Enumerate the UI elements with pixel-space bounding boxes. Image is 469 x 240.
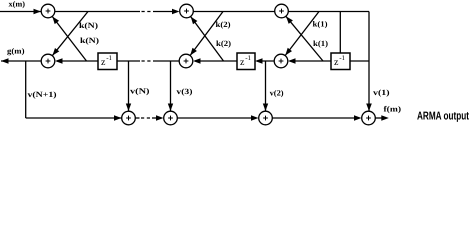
arrowhead g(m) output (left) [1,58,9,64]
svg-text:ARMA output: ARMA output [417,111,469,123]
wire tap v(N) down [128,61,130,111]
svg-text:v(1): v(1) [373,88,390,97]
bottom adder B2b [164,111,178,125]
adder A2 (row2 stage N) [41,54,55,68]
arrowhead into delay D2 from right [255,58,263,64]
bottom adder B3b [259,111,273,125]
wire row2 delay D3 to B3 [290,60,331,62]
arrowhead tap v(3) into B2b [168,104,173,112]
wire row2 vertical to D3 [350,60,369,62]
output adder Fb [362,111,376,125]
wire bottom B2b to B3b [178,117,253,119]
wire top A1 to T2 (with ellipsis gap) [55,11,140,13]
svg-text:-1: -1 [245,54,251,62]
delay z^-1 D3 [331,53,350,70]
wire stage-N cross diagonal down into A2 [52,12,88,56]
svg-text:k(1): k(1) [313,39,328,48]
arrowhead into adder A2 from right [55,58,63,64]
svg-text:v(N): v(N) [130,87,150,96]
svg-text:v(2): v(2) [270,89,284,98]
arrowhead down into output adder Fb [366,104,372,112]
wire row2 delay D1 to A2 with junction [57,60,98,62]
wire tap v(2) down [265,61,267,111]
arrowhead diagonal into T2 [191,17,198,25]
wire row2 ellipsis dashes [142,60,153,62]
wire row2 right of D1 with taps (solid part) [117,60,140,62]
wire bottom ellipsis dashes [141,117,151,119]
wire top T2 to T3 [194,11,275,13]
node junction tap v(N+1) [25,61,27,118]
arrowhead tap v(2) into B3b [263,104,268,112]
arrowhead diagonal into T3 [286,16,293,24]
svg-text:v(3): v(3) [176,87,192,96]
wire vertical right edge down from top line through row2 to bottom adder [368,12,370,112]
svg-text:g(m): g(m) [7,46,25,55]
svg-text:f(m): f(m) [384,104,402,113]
wire bottom from v(N+1) corner to B1b [26,117,122,119]
bottom adder B1b [122,111,136,125]
arrowhead tap v(N) into B1b [126,104,131,112]
wire vertical feed from top line into delay D3 [339,12,341,54]
wire stage-2 cross diagonal down into B2 [190,12,223,56]
arrowhead into bottom adder B1b [114,115,122,121]
wire bottom B3b to output adder Fb [273,117,356,119]
arrowhead into bottom adder B2b [156,115,164,121]
wire row2 adder A2 to g(m) output [1,60,41,62]
arrowhead into adder T2 [172,9,180,14]
wire top T3 to right corner [289,11,370,13]
svg-text:k(N): k(N) [80,36,99,45]
wire stage-2 cross diagonal up into T2 [191,17,224,61]
svg-text:-1: -1 [339,54,345,62]
wire stage-1 cross diagonal down into B3 [285,12,319,56]
svg-text:-1: -1 [106,54,112,62]
wire top input x(m) to adder A1 [0,11,41,13]
arrowhead diagonal into A1 [52,17,59,25]
wire bottom after dashes into B2b [152,117,157,119]
svg-text:x(m): x(m) [9,0,26,8]
wire stage-1 cross diagonal up into T3 [286,16,323,61]
svg-text:v(N+1): v(N+1) [28,90,57,99]
wire row2 after dashes to B2 [153,60,179,62]
wire stage-N cross diagonal up into A1 [52,17,86,62]
adder T3 (top stage 1) [275,4,289,18]
svg-text:k(N): k(N) [79,21,98,30]
wire tap v(3) down [170,61,172,111]
delay z^-1 D2 [237,53,255,70]
arrowhead into adder A1 [34,9,42,14]
arrowhead diagonal into B2 [190,48,197,56]
svg-text:k(2): k(2) [216,20,231,29]
svg-text:k(2): k(2) [216,39,231,48]
adder B2 (row2 stage 2) [179,54,193,68]
wire output f(m) [376,117,382,119]
adder B3 (row2 stage 1) [274,54,288,68]
wire top after dashes into T2 [153,11,173,13]
arrowhead into output adder Fb [354,115,362,121]
wire row2 delay D2 to B2 [195,60,237,62]
arrowhead diagonal into B3 [285,48,292,56]
svg-text:k(1): k(1) [313,19,328,28]
arrowhead into bottom adder B3b [251,115,259,121]
wire bottom B1b to B2b (solid lead) [136,117,140,119]
adder A1 (top stage N) [41,4,55,18]
arrowhead into adder B2 from right [193,58,201,64]
wire row2 B3 to D2 with tap v(2) [257,60,274,62]
delay z^-1 D1 [98,53,117,70]
arrowhead output f(m) [381,115,389,121]
wire top ellipsis dashes [142,11,153,13]
adder T2 (top stage 2) [180,4,194,18]
arrowhead into adder B3 from right [288,58,296,64]
arrowhead diagonal into A2 [52,48,59,56]
